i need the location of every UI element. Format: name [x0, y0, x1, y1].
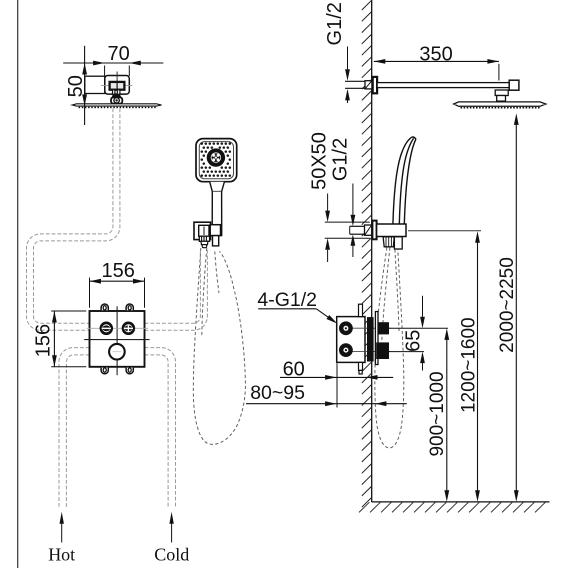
dimension line 80~95: [246, 403, 407, 405]
wall hatching: [362, 0, 372, 507]
centre line of ceiling shower: [116, 72, 118, 91]
handle socket: [210, 225, 220, 236]
hand shower handle blade (side): [393, 137, 416, 224]
mounting lug top-right: [126, 304, 133, 310]
leader line to valve: [316, 309, 333, 321]
top pin: [359, 304, 363, 316]
wall supply elbow body: [199, 225, 209, 236]
ball: [114, 98, 119, 103]
extension line holder bottom: [325, 237, 370, 239]
spray nozzles under plate: [79, 107, 156, 109]
dimension line 65: [422, 296, 424, 317]
valve body (side): [337, 317, 365, 363]
mounting lug bottom-right: [126, 368, 133, 374]
svg-text:G1/2: G1/2: [330, 138, 352, 181]
valve horizontal mid line: [84, 339, 149, 341]
dimension line G1/2 arm: [347, 47, 349, 70]
hand shower neck: [210, 182, 225, 192]
cold inlet arrow: [171, 517, 173, 543]
hose nut taper: [201, 241, 208, 244]
svg-text:2000~2250: 2000~2250: [497, 257, 518, 353]
ground line: [372, 501, 550, 503]
connector fork right: [117, 90, 120, 94]
central diverter knob: [207, 148, 225, 166]
in-wall fitting square (holder): [365, 225, 372, 235]
hand shower hose loop (dashed): [193, 248, 245, 444]
underline of 4-G1/2: [258, 308, 316, 310]
wall supply elbow outer: [194, 222, 211, 239]
elbow centre line: [203, 227, 205, 236]
svg-text:156: 156: [33, 324, 55, 357]
holder escutcheon: [372, 221, 376, 240]
left handle centre line (faint): [87, 327, 149, 329]
svg-text:350: 350: [419, 44, 452, 66]
arm end cap: [509, 80, 519, 90]
hand shower handle: [212, 192, 222, 236]
extension line valve face: [336, 364, 338, 408]
ceiling mount housing left box: [85, 76, 105, 93]
extension lines 156 horizontal: [89, 278, 91, 308]
hot inlet arrow: [61, 517, 63, 543]
ball joint upper block: [495, 90, 508, 96]
hose connector below handle: [213, 236, 219, 246]
extension line at head centre: [498, 64, 500, 81]
hose nut (side): [383, 237, 394, 247]
mounting lug bottom-left: [101, 368, 108, 374]
in-wall fitting square: [365, 81, 372, 89]
dimension line G1/2 holder: [352, 184, 354, 215]
outlet tube (side): [394, 237, 402, 249]
hand shower head: [196, 139, 237, 182]
port centre line lower: [341, 351, 391, 353]
water connector block: [110, 82, 125, 90]
valve face plate: [90, 311, 145, 367]
hot supply pipe (dashed): [59, 348, 90, 507]
ground hatching: [359, 502, 545, 512]
face plate edge (side): [375, 312, 378, 365]
valve vertical centre line: [116, 306, 118, 375]
valve knob upper (side): [339, 321, 353, 335]
dimension line 900~1000: [446, 334, 448, 497]
nozzle row (side): [461, 107, 540, 109]
connector fork left: [113, 90, 115, 94]
cold supply pipe (dashed): [145, 348, 176, 507]
central control knob: [109, 344, 125, 360]
extension 65 top: [389, 327, 448, 329]
valve knob lower (side): [339, 343, 353, 357]
svg-text:70: 70: [107, 43, 129, 65]
ball joint housing: [111, 97, 122, 103]
frame border line left: [17, 0, 19, 568]
holder height reference line: [408, 230, 481, 232]
svg-text:4-G1/2: 4-G1/2: [257, 289, 317, 311]
extension 65 bottom: [389, 351, 424, 353]
extension lines for 70: [104, 66, 106, 77]
mounting slab in wall (black): [367, 317, 374, 361]
port centre line upper: [341, 327, 391, 329]
lower port block: [376, 342, 389, 359]
wall face line: [371, 0, 373, 502]
ceiling mount housing rounded box: [105, 76, 130, 95]
concealed pipe valve to hand shower outlet (dashed): [145, 249, 208, 331]
svg-text:60: 60: [283, 358, 305, 380]
dimension line 50: [84, 46, 86, 125]
dimension line 50X50: [327, 194, 329, 211]
bottom pin: [359, 362, 363, 370]
svg-text:50: 50: [65, 75, 87, 97]
concealed drop pipe (dashed) to ceiling shower: [27, 109, 120, 331]
svg-text:65: 65: [402, 330, 424, 352]
svg-text:1200~1600: 1200~1600: [458, 317, 479, 413]
svg-text:G1/2: G1/2: [324, 2, 346, 45]
mounting lug top-left: [101, 304, 108, 310]
right handle (cold): [123, 323, 134, 334]
hand shower face: [199, 142, 233, 179]
dimension line 60: [280, 376, 393, 378]
dimension line 1200~1600: [477, 237, 479, 497]
extension line holder top: [325, 221, 370, 223]
arm wall flange: [373, 77, 377, 93]
hose loop (side, dashed): [375, 248, 404, 449]
dimension line 2000~2250: [515, 119, 517, 497]
svg-text:Cold: Cold: [154, 545, 189, 565]
supply stub in wall: [345, 80, 365, 82]
svg-text:156: 156: [102, 260, 135, 282]
svg-text:900~1000: 900~1000: [427, 371, 448, 456]
hose nut on elbow: [199, 236, 209, 241]
ceiling shower head plate: [72, 104, 161, 106]
svg-text:50X50: 50X50: [309, 132, 331, 190]
left handle (hot): [101, 323, 112, 334]
dimension line 156 vertical: [53, 311, 55, 367]
spray dot array: [201, 142, 232, 177]
ball joint lower block: [497, 96, 506, 102]
overhead head plate (side): [454, 102, 546, 106]
dimension line 350: [374, 60, 499, 62]
svg-text:Hot: Hot: [48, 545, 75, 565]
svg-text:80~95: 80~95: [250, 382, 305, 404]
shower arm: [377, 83, 511, 88]
ball joint cone: [112, 94, 122, 97]
holder arm: [377, 224, 406, 237]
dimension line 70: [63, 62, 163, 64]
upper port block: [378, 322, 389, 334]
extension lines 156 vertical: [51, 310, 86, 312]
faint axis line through connector: [101, 85, 133, 87]
holder supply stub: [350, 225, 364, 227]
dimension line 156 horizontal: [90, 280, 145, 282]
